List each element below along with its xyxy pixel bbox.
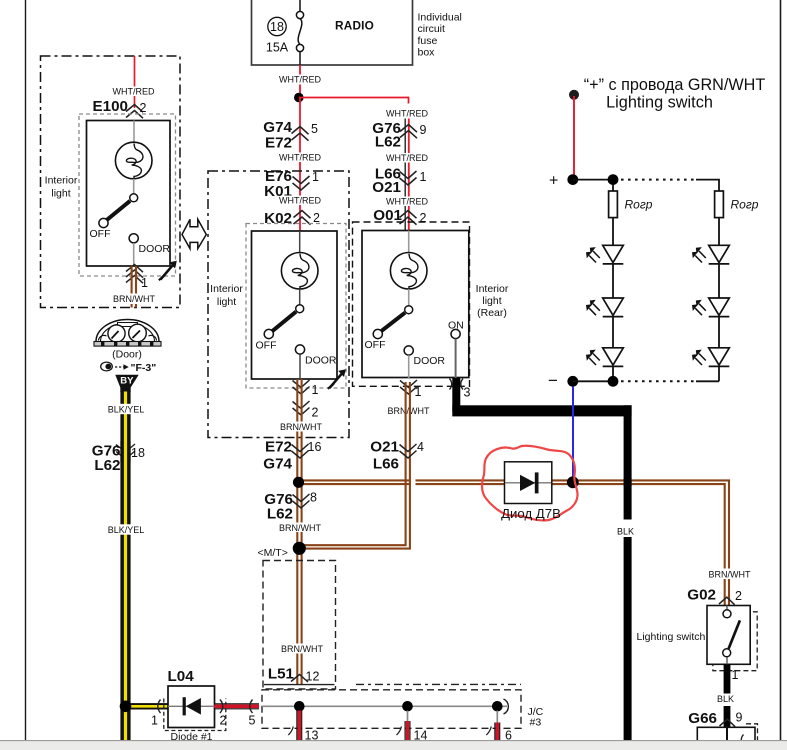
connector E72/G74 pin 16: [263, 439, 321, 473]
svg-text:WHT/RED: WHT/RED: [386, 197, 428, 207]
wire to lamp: [299, 231, 301, 253]
svg-text:BRN/WHT: BRN/WHT: [113, 294, 155, 304]
lamp K02: [281, 252, 318, 289]
svg-text:+: +: [549, 173, 558, 190]
wire to branch 2: [696, 180, 719, 191]
label WHT/RED: [386, 197, 428, 207]
svg-text:18: 18: [270, 20, 284, 34]
connector O01 pin 2: [373, 207, 426, 225]
LED D3: [586, 348, 623, 367]
svg-text:1: 1: [415, 385, 422, 399]
ON terminal: [451, 329, 460, 338]
individual circuit fuse box: [252, 0, 462, 65]
svg-text:12: 12: [306, 670, 320, 684]
svg-text:#3: #3: [530, 717, 542, 729]
svg-text:G66: G66: [688, 710, 717, 727]
J/C bus wire: [262, 699, 508, 714]
connector mark at L04 pin 1: [158, 700, 161, 714]
LED D2: [586, 298, 623, 317]
node branch 1 top: [608, 174, 619, 185]
node GRN/WHT tap: [569, 90, 579, 100]
svg-text:circuit: circuit: [418, 23, 446, 35]
OFF terminal: [264, 329, 273, 338]
node junction M/T: [293, 542, 306, 555]
svg-text:(Door): (Door): [112, 349, 142, 361]
svg-text:E72: E72: [265, 135, 292, 152]
resistor Rogr 1: [609, 185, 653, 218]
svg-text:2: 2: [735, 589, 742, 603]
wire + rail: [573, 179, 618, 181]
svg-text:9: 9: [420, 123, 427, 137]
svg-text:DOOR: DOOR: [305, 355, 337, 367]
svg-text:Interior: Interior: [476, 283, 509, 295]
E100 interior light assembly box: [41, 56, 181, 308]
label BLK/YEL: [108, 404, 145, 415]
svg-text:15A: 15A: [266, 41, 289, 55]
svg-text:BRN/WHT: BRN/WHT: [388, 406, 430, 416]
J/C #3 junction connector box: [262, 684, 544, 728]
svg-text:4: 4: [417, 440, 424, 454]
wire - rail: [573, 380, 618, 382]
svg-text:L04: L04: [168, 668, 195, 685]
wire WHT/RED into E100: [134, 56, 136, 108]
label WHT/RED: [279, 153, 321, 163]
node J/C 14: [402, 701, 413, 712]
lamp E100: [115, 142, 152, 179]
svg-text:WHT/RED: WHT/RED: [386, 153, 428, 163]
instrument cluster icon: [94, 320, 161, 347]
svg-text:G74: G74: [263, 119, 292, 136]
svg-text:1: 1: [312, 170, 319, 184]
label BRN/WHT: [388, 406, 430, 416]
node junction main: [293, 477, 304, 488]
wire WHT/RED main left: [299, 98, 301, 231]
connector L66/O21 pin 1: [372, 166, 426, 197]
LED D1: [586, 245, 623, 264]
connector G02 pin 2: [687, 587, 742, 605]
connector pin 1 chevrons: [400, 380, 422, 399]
O01 rear interior light dashed box: [353, 222, 470, 386]
wire lamp to switch: [299, 289, 301, 305]
label WHT/RED: [113, 87, 155, 97]
wire DOOR down: [133, 243, 135, 266]
svg-text:RADIO: RADIO: [335, 19, 374, 33]
O01 lamp unit box: [362, 231, 469, 378]
svg-text:Interior: Interior: [45, 175, 78, 187]
svg-text:light: light: [482, 295, 501, 307]
wire RED drop pin 14: [397, 711, 428, 743]
svg-text:"F-3": "F-3": [131, 362, 157, 374]
node branch 1 bottom: [608, 376, 619, 387]
diode D7V box: [505, 462, 552, 504]
lamp O01: [390, 252, 427, 289]
DOOR terminal: [129, 234, 138, 243]
svg-text:BRN/WHT: BRN/WHT: [709, 569, 751, 579]
svg-text:Rогр: Rогр: [731, 198, 759, 212]
svg-text:1: 1: [141, 276, 148, 290]
ganged-switch arrow: [159, 261, 177, 280]
svg-text:light: light: [51, 188, 70, 200]
LED D5: [692, 298, 729, 317]
svg-text:Диод Д7В: Диод Д7В: [501, 506, 561, 521]
wire RED drop pin 13: [288, 711, 318, 743]
eye symbol with F-3 reference: [101, 362, 157, 374]
wire WHT/RED branch right: [299, 97, 429, 119]
svg-text:box: box: [418, 47, 436, 59]
node J/C 6: [492, 701, 503, 712]
svg-text:O21: O21: [372, 179, 401, 196]
svg-text:OFF: OFF: [90, 228, 111, 240]
switch pivot: [405, 306, 413, 314]
connector marks pin 2 / pin 5: [220, 700, 256, 728]
switch pivot: [130, 194, 138, 202]
svg-text:O21: O21: [370, 439, 399, 456]
OFF terminal: [373, 329, 382, 338]
svg-text:2: 2: [312, 406, 319, 420]
K02 interior light assembly dash-dot box: [208, 171, 349, 438]
wire BLK/YEL vertical: [120, 392, 130, 741]
label WHT/RED: [386, 153, 428, 163]
svg-text:L51: L51: [268, 666, 295, 683]
svg-text:5: 5: [249, 714, 256, 728]
wire BRN/WHT stub: [113, 266, 155, 308]
svg-text:K02: K02: [264, 210, 292, 227]
wire lamp to switch: [408, 289, 410, 306]
wire BLK/YEL horizontal to L04: [126, 703, 169, 709]
svg-text:BLK/YEL: BLK/YEL: [108, 525, 145, 535]
K02 inner dashed box: [246, 224, 346, 389]
svg-text:BRN/WHT: BRN/WHT: [280, 422, 322, 432]
svg-text:Individual: Individual: [418, 12, 462, 24]
svg-text:BLK/YEL: BLK/YEL: [108, 405, 145, 415]
wire BLK below G02: [717, 664, 739, 727]
svg-text:2: 2: [220, 714, 227, 728]
wire red from tap: [573, 96, 575, 180]
connector G66 pin 9: [688, 710, 742, 727]
svg-text:L62: L62: [94, 457, 120, 474]
connector pin 2 chevrons: [293, 401, 319, 420]
label BRN/WHT: [280, 422, 322, 432]
DOOR terminal: [295, 345, 304, 354]
junction node: [294, 93, 304, 103]
svg-text:E100: E100: [93, 98, 128, 115]
connector O21/L66 pin 4: [370, 439, 424, 473]
wire BRN/WHT vertical from K02 to L51: [297, 379, 301, 684]
wire branch 2: [718, 218, 720, 246]
E100 lamp unit box: [87, 121, 171, 267]
svg-text:DOOR: DOOR: [414, 355, 446, 367]
connector G76/L62 pin 8: [264, 491, 317, 523]
wire to lamp: [133, 121, 135, 144]
fuse 18 15A: [266, 0, 304, 65]
svg-text:fuse: fuse: [418, 35, 438, 47]
svg-text:G74: G74: [263, 456, 292, 473]
svg-text:WHT/RED: WHT/RED: [279, 153, 321, 163]
svg-text:OFF: OFF: [256, 340, 277, 352]
svg-text:light: light: [217, 296, 236, 308]
G02 lighting switch dashed box: [713, 612, 757, 671]
wire BRN/WHT vertical O21/L66 with corner to M/T node: [303, 382, 410, 549]
connector pin 1 chevrons: [293, 380, 319, 397]
switch pivot: [296, 305, 304, 313]
wire blue from - node: [572, 387, 574, 481]
svg-text:Interior: Interior: [210, 283, 243, 295]
wire lamp to switch: [133, 179, 135, 194]
svg-text:BLK: BLK: [617, 527, 634, 537]
wire ON down: [455, 339, 457, 378]
svg-text:WHT/RED: WHT/RED: [386, 109, 428, 119]
svg-text:5: 5: [311, 122, 318, 136]
LED D4: [692, 245, 729, 264]
svg-text:−: −: [548, 371, 558, 390]
svg-text:WHT/RED: WHT/RED: [279, 196, 321, 206]
svg-text:WHT/RED: WHT/RED: [279, 75, 321, 85]
wire DOOR down: [299, 354, 301, 379]
connector pin 3 marks: [450, 379, 471, 400]
svg-text:G02: G02: [687, 587, 716, 604]
label BLK/YEL: [108, 524, 145, 535]
svg-text:OFF: OFF: [365, 339, 386, 351]
switch lever: [273, 312, 297, 331]
LED D6: [692, 348, 729, 367]
svg-text:E72: E72: [265, 439, 292, 456]
bottom status bar: [0, 741, 787, 750]
svg-text:<M/T>: <M/T>: [258, 547, 288, 559]
svg-text:1: 1: [312, 383, 319, 397]
svg-text:1: 1: [151, 714, 158, 728]
dotted + rail continuation: [621, 179, 696, 181]
svg-text:1: 1: [420, 170, 427, 184]
svg-text:L62: L62: [375, 134, 401, 151]
switch lever: [382, 313, 406, 331]
svg-text:16: 16: [308, 440, 322, 454]
svg-text:BLK: BLK: [717, 694, 734, 704]
G02 switch box: [707, 606, 750, 665]
double arrow symbol: [182, 219, 206, 248]
red highlight circle annotation: [482, 446, 577, 521]
svg-text:Lighting switch: Lighting switch: [637, 631, 706, 643]
wire RED drop pin 6: [486, 711, 512, 743]
connector G76/L62 pin 9: [372, 120, 426, 151]
svg-text:8: 8: [310, 491, 317, 505]
L51 connector dashed box: [263, 561, 336, 690]
DOOR terminal: [404, 346, 413, 355]
ganged-switch arrow: [328, 369, 346, 389]
svg-text:Rогр: Rогр: [625, 198, 653, 212]
svg-text:ON: ON: [448, 320, 464, 332]
right frame line: [780, 0, 782, 741]
svg-text:L62: L62: [267, 506, 293, 523]
svg-text:9: 9: [736, 711, 743, 725]
wire to lamp: [408, 231, 410, 254]
node J/C 13: [294, 701, 305, 712]
svg-text:(Rear): (Rear): [477, 307, 507, 319]
svg-text:2: 2: [140, 101, 147, 115]
wire DOOR down: [408, 355, 410, 378]
label WHT/RED: [279, 196, 321, 206]
interior light inner dashed box: [79, 114, 176, 276]
wire WHT/RED from fuse: [279, 65, 321, 98]
svg-text:1: 1: [732, 668, 739, 682]
wire BLK over crossing: [624, 478, 632, 486]
svg-text:2: 2: [420, 211, 427, 225]
label BRN/WHT: [279, 523, 321, 533]
connector G76/L62 pin 18: [92, 441, 145, 474]
K02 lamp unit box: [252, 231, 338, 379]
svg-text:WHT/RED: WHT/RED: [113, 87, 155, 97]
label BRN/WHT right: [709, 569, 751, 580]
svg-text:18: 18: [131, 446, 145, 460]
dotted - rail continuation: [621, 380, 696, 382]
svg-text:3: 3: [464, 386, 471, 400]
wire RED from L04 pin 2: [215, 704, 260, 709]
svg-text:DOOR: DOOR: [139, 243, 171, 255]
connector E76/K01 pin 1: [264, 168, 319, 200]
svg-text:BRN/WHT: BRN/WHT: [279, 523, 321, 533]
svg-text:BRN/WHT: BRN/WHT: [281, 644, 323, 654]
OFF terminal: [99, 218, 108, 227]
connector pin 1 chevrons: [126, 265, 148, 291]
connector K02 pin 2: [264, 210, 320, 227]
svg-text:BY: BY: [120, 376, 134, 387]
BY wire tag: [115, 375, 138, 392]
svg-text:L66: L66: [373, 456, 399, 473]
thick BLK wire from ON pin 3: [452, 378, 631, 741]
svg-text:Lighting switch: Lighting switch: [606, 94, 713, 112]
switch lever: [107, 201, 130, 220]
svg-text:“+” с провода GRN/WHT: “+” с провода GRN/WHT: [584, 76, 766, 94]
resistor Rogr 2: [715, 191, 759, 218]
L04 diode box: [164, 668, 226, 743]
node blue junction: [567, 476, 579, 488]
G66 box: [697, 724, 757, 750]
wire BRN/WHT horizontal main run: [296, 480, 729, 605]
node junction to L04: [120, 701, 132, 713]
wire branch 1: [612, 218, 614, 246]
connector E100 pin 2: [93, 98, 147, 118]
wire from branch 2 bottom: [696, 380, 719, 382]
left frame line: [25, 0, 27, 741]
connector G74/E72 pin 5: [263, 119, 318, 152]
wire WHT/RED right column (black+red pair): [405, 119, 409, 231]
